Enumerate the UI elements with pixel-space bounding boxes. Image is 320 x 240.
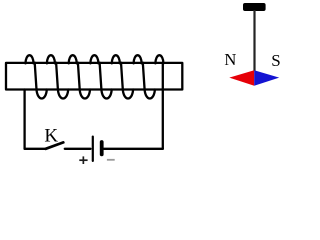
wire left lead bbox=[23, 90, 25, 149]
switch K blade (open) bbox=[46, 142, 64, 148]
support bar (hanger) bbox=[243, 3, 266, 11]
compass needle N pole (red, points left) bbox=[229, 70, 254, 86]
coil turn 1 bbox=[26, 55, 47, 98]
wire battery to right lead bbox=[104, 148, 163, 150]
coil turn 6 bbox=[134, 55, 155, 98]
solenoid core (rectangle) bbox=[6, 63, 182, 90]
svg-text:S: S bbox=[271, 51, 280, 70]
coil turn 5 bbox=[112, 55, 133, 98]
wire switch fixed contact to battery bbox=[65, 148, 91, 150]
svg-text:K: K bbox=[44, 125, 58, 146]
wire right lead (crosses core from turn 7) bbox=[162, 63, 164, 149]
coil turn 2 bbox=[47, 55, 68, 98]
battery - label bbox=[107, 159, 115, 161]
battery + label bbox=[79, 156, 87, 164]
thread (suspension string) bbox=[253, 10, 255, 71]
battery positive plate (long) bbox=[92, 137, 94, 161]
coil turn 7 (top arc only) bbox=[155, 55, 163, 63]
coil turn 4 bbox=[90, 55, 111, 98]
wire bottom left to switch pivot bbox=[25, 148, 46, 150]
coil turn 3 bbox=[69, 55, 90, 98]
svg-text:N: N bbox=[224, 50, 236, 69]
battery negative plate (short, thick) bbox=[100, 142, 104, 154]
compass needle S pole (blue, points right) bbox=[254, 70, 279, 86]
